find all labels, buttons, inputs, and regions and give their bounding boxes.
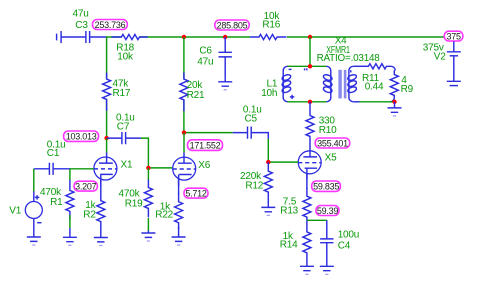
node dot prim bottom — [308, 100, 312, 104]
balloon 59.835 — [312, 181, 341, 192]
balloon 3.207 — [74, 181, 97, 191]
capacitor C6 — [219, 37, 232, 78]
svg-text:R22: R22 — [155, 210, 173, 221]
svg-text:5.712: 5.712 — [185, 188, 207, 198]
node dot A — [104, 136, 108, 140]
wire top rail left — [106, 36, 444, 38]
node dot prim top — [308, 64, 312, 68]
ground under R22 — [172, 235, 186, 242]
svg-text:59.835: 59.835 — [313, 182, 339, 192]
svg-text:355.401: 355.401 — [317, 138, 348, 148]
svg-text:C5: C5 — [245, 114, 258, 125]
X5 cathode chain — [306, 174, 308, 189]
wire R22 to ground — [178, 227, 180, 235]
source V1 — [25, 191, 42, 227]
svg-text:C1: C1 — [47, 148, 60, 159]
primary left coil L1 — [281, 66, 291, 102]
resistor R11 — [367, 64, 396, 71]
wire X1 plate — [106, 138, 108, 152]
resistor R21 — [180, 73, 188, 112]
wire C5 line — [184, 132, 233, 134]
wire X6 plate — [183, 133, 185, 153]
ground under R2 — [94, 235, 108, 242]
node dot C5 left — [182, 130, 186, 134]
node dot rail2 — [223, 35, 227, 39]
transformer primary bottom — [288, 101, 327, 103]
primary polarity minus — [289, 68, 292, 70]
triode X1 — [94, 153, 117, 186]
resistor R2 — [97, 193, 105, 229]
resistor R16 — [250, 34, 287, 39]
svg-text:R10: R10 — [319, 125, 337, 136]
wire R2 to ground — [100, 228, 102, 235]
balloon 355.401 — [315, 138, 350, 148]
transformer X4 primary top — [288, 65, 327, 67]
ground under R19 — [141, 231, 155, 238]
svg-text:3.207: 3.207 — [75, 181, 97, 191]
svg-text:V1: V1 — [9, 206, 21, 217]
ground under C4 — [320, 263, 334, 271]
wire grid to R1 — [69, 169, 71, 180]
wire C7 to X6 grid branch — [141, 138, 172, 168]
balloon 171.552 — [188, 140, 223, 151]
svg-text:47u: 47u — [197, 57, 213, 68]
ground under R14 — [300, 263, 314, 271]
balloon 375 — [444, 31, 463, 41]
svg-text:RATIO=.03148: RATIO=.03148 — [317, 53, 381, 64]
wire cathode junction — [307, 219, 327, 221]
capacitor C3 — [61, 31, 106, 43]
capacitor C1 — [34, 163, 70, 175]
node dot rail1 — [182, 35, 186, 39]
svg-text:100u: 100u — [338, 230, 359, 241]
svg-text:C4: C4 — [338, 241, 351, 252]
ground under R12 — [261, 202, 275, 211]
ground under V1 — [27, 235, 41, 242]
secondary coil — [347, 66, 357, 102]
resistor R14 — [303, 220, 311, 263]
svg-text:R21: R21 — [187, 90, 205, 101]
wire C1 to V1 — [33, 169, 35, 192]
svg-text:R17: R17 — [113, 88, 131, 99]
svg-text:R13: R13 — [280, 206, 298, 217]
balloon 253.736 — [93, 20, 128, 30]
input port — [57, 31, 62, 43]
svg-text:375: 375 — [446, 31, 461, 41]
wire R17 branch — [106, 37, 108, 138]
capacitor C7 — [107, 132, 141, 144]
ground under C6 — [218, 78, 232, 86]
resistor R19 — [147, 168, 149, 231]
svg-text:R19: R19 — [125, 198, 143, 209]
secondary top wire — [353, 65, 368, 67]
svg-text:59.39: 59.39 — [317, 206, 339, 216]
svg-text:X5: X5 — [325, 153, 337, 164]
wire R21 branch — [183, 37, 185, 133]
core — [338, 70, 341, 99]
resistor R22 — [175, 193, 183, 229]
svg-text:253.736: 253.736 — [95, 20, 126, 30]
battery V2 — [447, 41, 461, 81]
primary polarity plus — [290, 95, 294, 99]
svg-text:C7: C7 — [117, 121, 130, 132]
secondary bottom wire — [359, 101, 395, 103]
svg-text:X1: X1 — [121, 159, 133, 170]
svg-text:C6: C6 — [199, 45, 212, 56]
triode X5 — [298, 151, 321, 180]
svg-text:285.805: 285.805 — [217, 20, 248, 30]
X6 cathode chain — [178, 180, 180, 194]
resistor R10 — [306, 102, 314, 151]
wire to X5 grid — [268, 139, 298, 162]
resistor R9 — [390, 70, 398, 102]
svg-text:0.44: 0.44 — [365, 81, 384, 92]
svg-text:10k: 10k — [117, 51, 134, 62]
svg-text:47u: 47u — [73, 9, 89, 20]
wire R1 to ground — [69, 215, 71, 228]
svg-text:10h: 10h — [261, 88, 277, 99]
primary right coil — [323, 66, 333, 102]
svg-text:C3: C3 — [75, 20, 88, 31]
node dot B — [146, 166, 150, 170]
svg-text:R12: R12 — [245, 181, 263, 192]
node dot sec — [392, 100, 396, 104]
secondary tick — [350, 70, 352, 72]
svg-text:R1: R1 — [50, 197, 63, 208]
node dot rail3 — [308, 35, 312, 39]
X1 cathode chain — [100, 180, 102, 194]
resistor R13 — [303, 188, 311, 220]
capacitor C5 — [233, 127, 269, 140]
svg-text:R16: R16 — [262, 20, 280, 31]
svg-text:R2: R2 — [83, 210, 96, 221]
resistor R17 — [103, 73, 111, 111]
wire to XFMR primary — [309, 37, 311, 66]
resistor R1 — [66, 180, 74, 220]
wire X1 grid — [70, 168, 94, 170]
svg-text:X6: X6 — [198, 160, 210, 171]
balloon 285.805 — [215, 20, 249, 30]
primary ticks — [305, 68, 307, 70]
ground under secondary — [388, 102, 402, 113]
capacitor C4 — [320, 220, 333, 263]
balloon 59.39 — [316, 206, 339, 216]
resistor R18 — [111, 34, 147, 39]
svg-text:103.013: 103.013 — [66, 132, 97, 142]
svg-text:R9: R9 — [401, 84, 414, 95]
balloon 103.013 — [64, 131, 99, 142]
balloon 5.712 — [184, 188, 208, 198]
svg-text:V2: V2 — [434, 51, 446, 62]
wire V1 to ground — [33, 227, 35, 235]
node dot X5 grid — [266, 160, 270, 164]
svg-text:R14: R14 — [280, 240, 298, 251]
triode X6 — [173, 153, 196, 187]
svg-text:171.552: 171.552 — [190, 140, 221, 150]
ground under R1 — [63, 228, 77, 242]
resistor R12 — [264, 162, 272, 202]
